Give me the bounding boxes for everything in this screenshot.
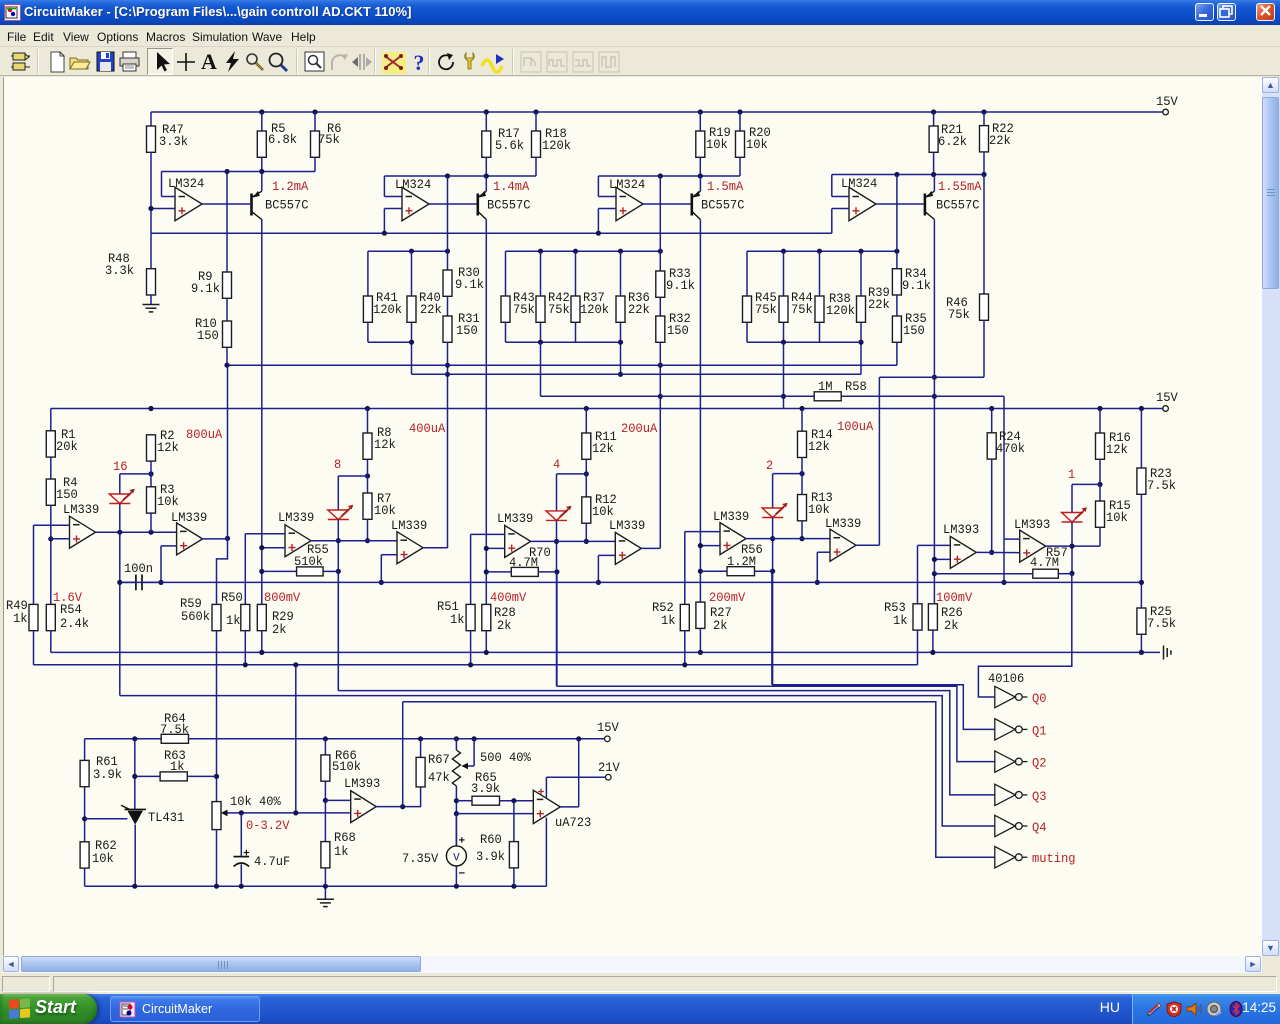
junction R24 bottom [989, 550, 994, 555]
svg-text:470k: 470k [996, 442, 1025, 456]
resistor R31 [447, 296, 449, 316]
wire U3A minus from R50 [245, 533, 285, 535]
svg-text:15V: 15V [597, 721, 619, 735]
resistor R42 [540, 251, 542, 296]
junction ground bus pot [214, 884, 219, 889]
wire U6A plus from R46 line [934, 558, 950, 560]
junction R31 bottom / 150-bus [445, 363, 450, 368]
svg-text:120k: 120k [373, 303, 402, 317]
ground right side [1164, 646, 1171, 660]
junction net4 top R39 [858, 249, 863, 254]
svg-text:40106: 40106 [988, 672, 1024, 686]
svg-text:1.55mA: 1.55mA [938, 180, 982, 194]
svg-text:200mV: 200mV [709, 591, 746, 605]
svg-text:LM339: LM339 [713, 510, 749, 524]
junction feedback st2 emitter [484, 173, 489, 178]
LED D5 [1062, 507, 1087, 522]
svg-text:3.9k: 3.9k [476, 850, 505, 864]
wire LED D3 bottom line [556, 520, 558, 686]
wire U6B minus from R58 riser [1004, 538, 1020, 540]
svg-text:120k: 120k [826, 304, 855, 318]
junction 15V rail R16 top [1097, 406, 1102, 411]
junction D4 output row [770, 536, 775, 541]
junction R13 bottom [799, 536, 804, 541]
wire U2A minus from R49 [34, 524, 70, 526]
junction feedback st3 emitter [698, 173, 703, 178]
wire stage3 output row [531, 540, 616, 542]
svg-text:9.1k: 9.1k [455, 278, 484, 292]
junction top bus x=486.3 [484, 109, 489, 114]
junction feedback st4 R22/R46 [981, 172, 986, 177]
resistor R36 [620, 251, 622, 296]
svg-text:Q0: Q0 [1032, 692, 1047, 706]
svg-text:500 40%: 500 40% [480, 751, 531, 765]
svg-text:LM324: LM324 [609, 178, 645, 192]
svg-text:400uA: 400uA [409, 422, 446, 436]
junction R63 left [132, 774, 137, 779]
svg-text:12k: 12k [157, 441, 179, 455]
svg-text:0-3.2V: 0-3.2V [246, 819, 290, 833]
wire R46 bottom to collector line [934, 376, 984, 378]
junction net3 top chain3 [658, 249, 663, 254]
wire mid bus 374 [412, 373, 862, 375]
wire U5B output riser [856, 544, 879, 546]
svg-text:1.4mA: 1.4mA [493, 180, 530, 194]
wire LM393 minus [325, 799, 350, 801]
resistor R30 [447, 176, 449, 270]
terminal 15V middle-right [1163, 406, 1169, 412]
junction R39 bottom bus [858, 340, 863, 345]
resistor R7 [363, 493, 372, 519]
wire Q0-net line (stage5 out to inverter Q0) [978, 573, 1071, 697]
resistor R33 [659, 176, 661, 271]
wire stage2 feedback bus [384, 175, 536, 177]
wire U1A plus input [151, 208, 175, 210]
junction D5 output [1069, 544, 1074, 549]
junction R4/R54 plus tap [48, 536, 53, 541]
transistor Q3 BC557C [691, 176, 701, 220]
resistor R10 [226, 298, 228, 321]
title bar [0, 0, 1280, 25]
inverter Q0 40106 [995, 686, 1016, 707]
svg-text:75k: 75k [513, 303, 535, 317]
wire stage5 output row [976, 551, 1019, 553]
LED D3 [546, 506, 571, 521]
svg-text:R53: R53 [884, 601, 906, 615]
svg-text:10k: 10k [706, 138, 728, 152]
resistor R34 [896, 175, 898, 269]
junction R56 left tap [698, 569, 703, 574]
junction feedback st1 R9 [224, 169, 229, 174]
svg-text:Q1: Q1 [1032, 724, 1047, 738]
resistor R6 [314, 112, 316, 131]
junction top bus x=740 [737, 109, 742, 114]
svg-text:3.3k: 3.3k [159, 135, 188, 149]
junction D5 R57 right [1069, 571, 1074, 576]
svg-text:75k: 75k [548, 303, 570, 317]
wire U4A minus from R51 [471, 533, 505, 535]
svg-text:1k: 1k [13, 612, 28, 626]
wire U6A minus from R53 [918, 544, 951, 546]
wire U7A output [376, 806, 421, 808]
junction 15V rail R66 [323, 736, 328, 741]
junction 15V rail uA723 out [576, 736, 581, 741]
junction R11/R12 LED tap [584, 471, 589, 476]
junction R65 left [454, 798, 459, 803]
svg-text:120k: 120k [542, 139, 571, 153]
svg-text:22k: 22k [628, 303, 650, 317]
resistor R48 [150, 233, 152, 269]
svg-text:?: ? [414, 50, 425, 74]
wire LED D4 bottom line [772, 518, 774, 685]
junction 15V rail R2 top [148, 406, 153, 411]
svg-text:R61: R61 [96, 755, 118, 769]
junction feedback st3 chain [658, 173, 663, 178]
junction D3 R70 right [554, 569, 559, 574]
resistor R68 1k [324, 800, 326, 841]
svg-text:LM339: LM339 [609, 519, 645, 533]
resistor R1 [50, 409, 52, 431]
wire U3B plus to threshold bus [381, 554, 397, 556]
junction top bus x=536 [533, 109, 538, 114]
inverter muting 40106 [995, 847, 1016, 868]
svg-text:20k: 20k [56, 440, 78, 454]
wire stage3 feedback bus [598, 175, 740, 177]
svg-text:560k: 560k [181, 610, 210, 624]
wire network4 top bus [747, 250, 897, 252]
svg-text:1k: 1k [661, 614, 676, 628]
wire U4B plus to threshold bus [598, 554, 615, 556]
inverter Q3 40106 [995, 784, 1016, 805]
junction top bus x=315 [312, 109, 317, 114]
wire network2 top bus [368, 250, 448, 252]
junction net3 top R37 [573, 249, 578, 254]
junction 15V rail R24 top [989, 406, 994, 411]
power rail 15V middle bus [51, 408, 1163, 410]
svg-text:BC557C: BC557C [487, 199, 531, 213]
svg-text:100mV: 100mV [936, 591, 973, 605]
junction net3 bottom riser [538, 340, 543, 345]
svg-text:7.5k: 7.5k [1147, 479, 1176, 493]
junction stage1-b output [225, 536, 230, 541]
junction bus-A R26 [930, 650, 935, 655]
resistor R61 3.9k [80, 760, 89, 786]
resistor R15 [1096, 501, 1105, 527]
wire Q3 collector [699, 220, 701, 603]
svg-text:75k: 75k [755, 303, 777, 317]
svg-text:BC557C: BC557C [936, 199, 980, 213]
junction U3A plus tap [259, 545, 264, 550]
resistor R38 [819, 251, 821, 296]
wire U1A output to Q1 base [202, 203, 250, 205]
junction U7A output muting riser [400, 804, 405, 809]
wire U1D output to Q4 base [876, 203, 924, 205]
wire network2 bottom bus [368, 341, 412, 343]
svg-text:800uA: 800uA [186, 428, 223, 442]
junction 15V rail R67 [418, 736, 423, 741]
wire U1B minus input [384, 196, 402, 198]
junction D4 R56 right [770, 569, 775, 574]
wire R2-R3 [150, 461, 152, 487]
wire R44 line down to R58 row [783, 342, 785, 408]
junction net4 R44 bottom [781, 340, 786, 345]
svg-text:2k: 2k [713, 619, 728, 633]
wire TL431 ref [85, 818, 128, 820]
svg-text:LM339: LM339 [63, 503, 99, 517]
svg-text:A: A [201, 50, 217, 74]
wire 150-ohm bottom bus [227, 364, 897, 366]
wire st1 output riser to R59 [227, 365, 229, 538]
junction 15V rail pot500 [454, 736, 459, 741]
svg-text:1k: 1k [450, 613, 465, 627]
wire U4B output riser [641, 547, 660, 549]
wire LED D5 top [1072, 483, 1100, 485]
resistor R41 [363, 296, 372, 322]
junction top bus x=984 [981, 109, 986, 114]
junction stage3 output riser / R58 row [658, 394, 663, 399]
wire U2B output [203, 538, 228, 540]
resistor R20 [739, 112, 741, 131]
resistor R60 3.9k [513, 801, 515, 842]
vertical scrollbar [1262, 77, 1280, 956]
wire U1B plus input [384, 208, 402, 210]
junction ground bus R60 [511, 884, 516, 889]
svg-text:LM393: LM393 [344, 777, 380, 791]
junction R65 right R60 [511, 798, 516, 803]
resistor R5 [261, 112, 263, 131]
junction R3 bottom [148, 530, 153, 535]
junction feedback st4 emitter [931, 172, 936, 177]
wire threshold bottom bus [120, 581, 1142, 583]
inverter Q4 40106 [995, 815, 1016, 836]
wire R63 riser [134, 739, 136, 810]
resistor R19 [699, 112, 701, 131]
svg-text:7.5k: 7.5k [1147, 617, 1176, 631]
resistor R62 10k [80, 842, 89, 868]
wire U3A plus from Q1 collector [262, 547, 285, 549]
resistor R21 [933, 112, 935, 126]
junction 15V rail R23 top [1139, 406, 1144, 411]
junction ground bus cap [239, 884, 244, 889]
wire U3B output riser [423, 547, 448, 549]
wire U5A minus from R52 [685, 531, 720, 533]
wire stage4 output row [746, 538, 830, 540]
wire uA723 V- pin to ground bus [545, 818, 547, 887]
wire network4 bottom bus [747, 341, 861, 343]
junction top bus x=933.6 [931, 109, 936, 114]
junction R66 bottom minus node [323, 798, 328, 803]
svg-text:R29: R29 [272, 610, 294, 624]
svg-text:R26: R26 [941, 606, 963, 620]
power rail 15V top bus [151, 111, 1163, 113]
wire uA723 output riser to 15V rail [560, 806, 578, 808]
wire Q2 collector [485, 220, 487, 605]
wire muting-net line [403, 702, 995, 857]
svg-text:10k: 10k [808, 503, 830, 517]
resistor R8 [367, 409, 369, 434]
wire stage1 feedback bus [162, 171, 316, 173]
wire R58 row [541, 395, 935, 397]
svg-text:R27: R27 [710, 606, 732, 620]
svg-text:22k: 22k [989, 134, 1011, 148]
junction R23 line threshold bus [1139, 580, 1144, 585]
svg-text:Q2: Q2 [1032, 757, 1047, 771]
svg-text:6.2k: 6.2k [938, 135, 967, 149]
svg-text:75k: 75k [948, 308, 970, 322]
svg-text:9.1k: 9.1k [666, 279, 695, 293]
junction R16/R15 LED tap [1097, 482, 1102, 487]
junction cap right [158, 580, 163, 585]
wire muting riser [402, 702, 404, 807]
resistor R18 [535, 112, 537, 131]
junction plus bus st2 [382, 231, 387, 236]
resistor R47 [150, 112, 152, 126]
resistor R23 [1137, 468, 1146, 494]
wire stage1 comparator output row [96, 531, 177, 533]
svg-text:1: 1 [1068, 468, 1075, 482]
svg-text:2k: 2k [944, 619, 959, 633]
resistor R4 [50, 457, 52, 479]
junction uA723 plus left [454, 811, 459, 816]
resistor R46 [983, 175, 985, 295]
resistor R49 [29, 604, 38, 630]
wire Q1-net line (stage4 out to inverter Q1) [771, 571, 773, 685]
transistor Q4 BC557C [924, 175, 935, 220]
resistor R9 [226, 172, 228, 273]
resistor R66 510k [324, 739, 326, 755]
junction plus bus st3 [596, 231, 601, 236]
svg-text:LM324: LM324 [841, 177, 877, 191]
LED D1 [109, 489, 134, 504]
junction ground bus vsrc [454, 884, 459, 889]
svg-text:22k: 22k [868, 298, 890, 312]
junction R32 bottom / 150-bus [658, 363, 663, 368]
junction 15V rail R8 top [365, 406, 370, 411]
wire stage4 output riser [879, 376, 934, 378]
svg-text:150: 150 [456, 324, 478, 338]
svg-text:12k: 12k [808, 440, 830, 454]
resistor R58 1M [814, 392, 841, 401]
wire U1A minus input [162, 196, 176, 198]
svg-text:10k: 10k [592, 505, 614, 519]
svg-text:4.7uF: 4.7uF [254, 855, 290, 869]
junction net4 top chain4 [894, 249, 899, 254]
resistor R16 [1099, 409, 1101, 434]
junction wiper row cap [239, 810, 244, 815]
wire ground bus bottom [85, 885, 547, 887]
junction net2 top chain [445, 249, 450, 254]
wire stage4 feedback bus [832, 174, 984, 176]
svg-text:10k 40%: 10k 40% [230, 795, 281, 809]
wire LED D2 bottom line [337, 520, 339, 691]
svg-text:3.9k: 3.9k [93, 768, 122, 782]
junction R2/R3 LED tap [148, 471, 153, 476]
svg-text:200uA: 200uA [621, 422, 658, 436]
svg-text:LM339: LM339 [497, 512, 533, 526]
wire U4A plus from Q2 collector [486, 547, 504, 549]
wire network3 bottom bus [506, 341, 621, 343]
junction LED D1 bottom [117, 530, 122, 535]
wire R14-R13 [801, 458, 803, 495]
svg-text:22k: 22k [420, 303, 442, 317]
resistor R13 [798, 495, 807, 521]
svg-text:4: 4 [553, 458, 560, 472]
junction R59 line R63 row [214, 774, 219, 779]
wire U1C output to Q3 base [643, 203, 691, 205]
wire LED D1 bottom [119, 504, 121, 696]
resistor R22 [983, 112, 985, 126]
wire uA723 V+ pin from 21V [545, 777, 547, 798]
junction U5A plus tap [698, 543, 703, 548]
junction net3 top R36 [618, 249, 623, 254]
resistor R2 [147, 435, 156, 461]
svg-text:1M: 1M [818, 380, 833, 394]
junction bus-B wiper riser [293, 662, 298, 667]
svg-text:uA723: uA723 [555, 816, 591, 830]
junction R57 left tap [932, 571, 937, 576]
svg-text:12k: 12k [1106, 443, 1128, 457]
junction net4 top R38 [817, 249, 822, 254]
svg-text:150: 150 [197, 329, 219, 343]
svg-text:1.2mA: 1.2mA [272, 180, 309, 194]
wire LED D3 top [557, 473, 587, 475]
resistor R40 [411, 251, 413, 296]
svg-text:75k: 75k [791, 303, 813, 317]
wire Q4-net line (stage1 out to inverter Q4) [120, 696, 995, 826]
wire U1C plus input [598, 208, 616, 210]
svg-text:100uA: 100uA [837, 420, 874, 434]
svg-text:150: 150 [903, 324, 925, 338]
wire plus-input bus (bottom of top section) [151, 232, 832, 234]
horizontal scrollbar [3, 956, 1262, 973]
wire Q2-net line (stage3 out to inverter Q2) [556, 572, 558, 686]
resistor R44 [783, 251, 785, 296]
svg-text:1k: 1k [893, 614, 908, 628]
wire U1C minus input [598, 196, 616, 198]
junction Q4 collector / R58 row [932, 394, 937, 399]
wire R11-R12 [585, 459, 587, 497]
wire LED D4 top [773, 473, 802, 475]
junction feedback st4 chain [894, 172, 899, 177]
wire 21V [546, 776, 605, 778]
svg-text:R54: R54 [60, 603, 82, 617]
svg-text:150: 150 [56, 488, 78, 502]
svg-text:5.6k: 5.6k [495, 139, 524, 153]
svg-text:75k: 75k [318, 133, 340, 147]
ground below R48 [143, 305, 160, 312]
svg-text:100n: 100n [124, 562, 153, 576]
junction U4A plus tap [484, 546, 489, 551]
svg-text:7.35V: 7.35V [402, 852, 439, 866]
junction R61 TL431 ref [82, 816, 87, 821]
svg-text:6.8k: 6.8k [268, 133, 297, 147]
wire wiper row [241, 812, 350, 814]
svg-text:R67: R67 [428, 753, 450, 767]
junction R8/R7 LED tap [365, 473, 370, 478]
svg-text:LM393: LM393 [943, 523, 979, 537]
junction bus-B R50 [243, 662, 248, 667]
wire pot wiper arrow [226, 812, 241, 814]
svg-text:10k: 10k [746, 138, 768, 152]
svg-text:R60: R60 [480, 833, 502, 847]
wire pot500 wiper [473, 739, 475, 766]
wire U2A plus [51, 538, 70, 540]
wire U6B output [1046, 545, 1072, 547]
resistor R35 [896, 295, 898, 316]
toolbar [0, 47, 1280, 76]
status bar [0, 974, 1280, 994]
junction U1A plus [148, 206, 153, 211]
